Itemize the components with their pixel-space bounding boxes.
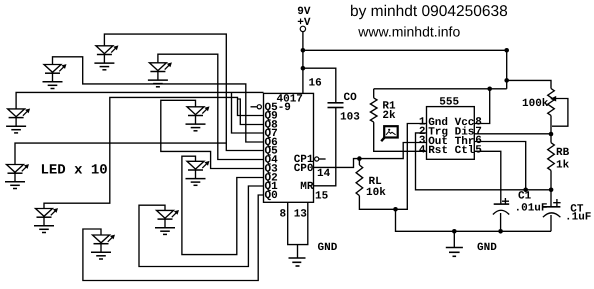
svg-text:GND: GND [318, 242, 338, 254]
svg-text:.01uF: .01uF [515, 203, 548, 215]
svg-text:5: 5 [475, 144, 482, 156]
svg-text:CP0: CP0 [294, 163, 314, 175]
svg-text:RL: RL [369, 176, 383, 188]
svg-text:CO: CO [344, 92, 358, 104]
svg-text:by minhdt 0904250638: by minhdt 0904250638 [350, 3, 508, 20]
svg-text:GND: GND [477, 242, 497, 254]
svg-text:2k: 2k [382, 110, 396, 122]
svg-text:www.minhdt.info: www.minhdt.info [357, 23, 460, 39]
svg-text:C1: C1 [518, 191, 532, 203]
svg-text:13: 13 [294, 209, 308, 221]
svg-text:10k: 10k [366, 187, 386, 199]
svg-text:MR: MR [300, 181, 314, 193]
svg-text:LED x 10: LED x 10 [41, 163, 108, 179]
svg-text:Rst Ctl: Rst Ctl [428, 145, 475, 157]
svg-text:15: 15 [315, 191, 329, 203]
svg-text:103: 103 [340, 112, 360, 124]
svg-text:.1uF: .1uF [565, 212, 591, 224]
svg-text:Q0: Q0 [265, 190, 278, 202]
svg-text:100k: 100k [522, 98, 549, 110]
svg-text:16: 16 [309, 78, 322, 90]
svg-text:4: 4 [419, 144, 426, 156]
svg-text:RB: RB [556, 147, 570, 159]
svg-text:1k: 1k [556, 160, 570, 172]
svg-text:+V: +V [297, 17, 311, 29]
svg-text:8: 8 [280, 209, 287, 221]
svg-text:555: 555 [439, 97, 459, 109]
svg-text:14: 14 [317, 168, 331, 180]
